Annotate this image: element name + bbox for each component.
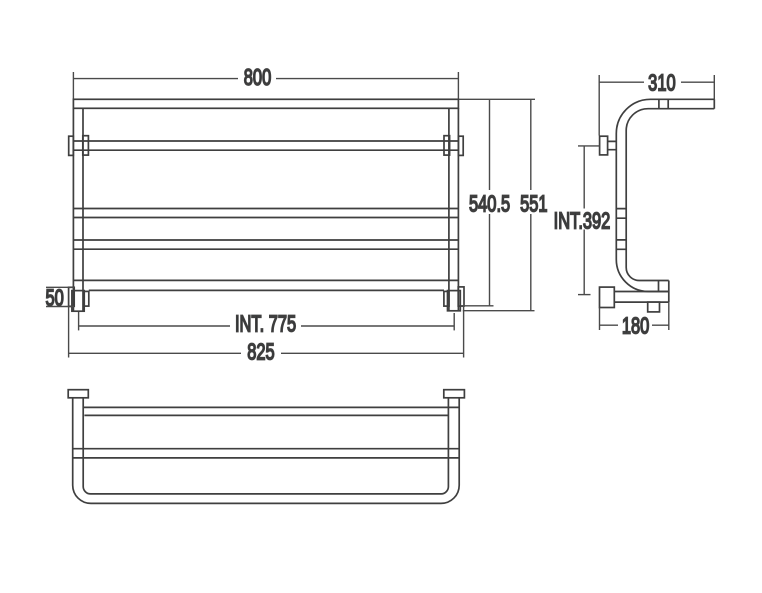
- front view: dimension 800 extension left: [72, 72, 74, 99]
- svg-text:INT.392: INT.392: [554, 209, 611, 234]
- front view: dimension INT.775 left extension: [78, 312, 80, 331]
- side view: dimension 180 right extension: [668, 302, 670, 330]
- front view: dimension 540.5 line: [489, 99, 491, 305]
- front view: upper towel rail between brackets: [73, 141, 458, 150]
- front view: dimension 50 top tick: [46, 286, 74, 288]
- side view: dimension 180 line: [600, 324, 669, 326]
- svg-text:INT. 775: INT. 775: [235, 312, 296, 337]
- plan view: U towel bar outer edge: [73, 398, 460, 504]
- svg-text:180: 180: [622, 314, 649, 339]
- plan view: left mounting cap: [68, 390, 88, 398]
- svg-text:825: 825: [247, 340, 274, 365]
- front view: dimension 825 right extension: [463, 307, 465, 358]
- svg-text:551: 551: [520, 192, 547, 217]
- front view: dimension 551 lower extension: [463, 310, 535, 312]
- front view: rail C pair: [73, 209, 458, 218]
- front view: dimension 825 line: [69, 352, 464, 354]
- front view: dimension 540.5 lower extension: [461, 305, 494, 307]
- side view: bottom wall plate: [600, 287, 615, 307]
- side view: dimension 310 line: [599, 81, 714, 83]
- front view: right vertical tube: [449, 108, 459, 311]
- front view: dimension 800 line: [73, 78, 458, 80]
- front view: bottom-right fitting block: [448, 291, 461, 311]
- side view: dimension 180 left extension: [599, 308, 601, 331]
- front view: dimension 800 extension right: [457, 72, 459, 99]
- side view: bottom small fitting under bar: [648, 302, 660, 312]
- plan view: back rail second edge: [84, 414, 448, 416]
- front view: left vertical tube: [73, 108, 83, 311]
- side view: tube cross marks (rails): [616, 209, 626, 250]
- side view: upper wall plate: [600, 136, 608, 155]
- side view: top tube with corner curve: [616, 99, 714, 133]
- plan view: front rail pair: [73, 449, 460, 458]
- side view: dimension 310 extension right: [713, 75, 715, 99]
- front view: upper-left wall plate: [69, 136, 74, 155]
- front view: bottom-right small fitting: [444, 291, 449, 306]
- front view: top shelf rail: [73, 99, 458, 108]
- front view: dimension 50 bottom tick: [46, 306, 74, 308]
- front view: upper-right wall plate: [458, 136, 463, 155]
- front view: rail D pair: [73, 240, 458, 249]
- svg-text:800: 800: [244, 65, 271, 90]
- front view: bottom-left small fitting: [84, 291, 89, 306]
- front view: upper-left bracket fitting: [83, 136, 89, 155]
- front view: bottom rail top edge: [73, 279, 458, 281]
- front view: bottom-right wall plate: [458, 287, 464, 306]
- side view: bottom curve and pipe: [616, 260, 669, 292]
- front view: dimension 551 line: [530, 99, 532, 310]
- plan view: U towel bar inner edge: [83, 398, 448, 494]
- svg-text:50: 50: [45, 286, 63, 311]
- side view: vertical tube: [616, 131, 626, 268]
- front view: upper-right bracket fitting: [444, 136, 450, 155]
- svg-text:310: 310: [648, 71, 675, 96]
- front view: bottom-left wall plate: [69, 287, 75, 306]
- front view: dimension 825 left extension: [68, 307, 70, 358]
- front view: top rail extension line to height dims: [458, 98, 535, 100]
- side view: dimension INT.392 top tick: [578, 145, 600, 147]
- side view: bottom mounting bar: [614, 292, 669, 303]
- side view: dimension INT.392 bottom tick: [578, 294, 591, 296]
- svg-text:540.5: 540.5: [469, 192, 510, 217]
- side view: dimension 310 extension left: [598, 75, 600, 136]
- side view: top tube joint marks: [659, 99, 668, 108]
- front view: dimension INT.775 right extension: [453, 313, 455, 330]
- front view: dimension INT.775 line: [79, 325, 455, 327]
- front view: bottom rail bottom edge: [89, 289, 444, 291]
- front view: bottom-left fitting block: [72, 291, 84, 312]
- side view: bottom pipe end fitting: [658, 281, 660, 292]
- plan view: right mounting cap: [444, 390, 465, 398]
- plan view: back rail top edge: [83, 406, 459, 408]
- side view: upper bracket arm: [608, 141, 617, 149]
- side view: dimension INT.392 line: [583, 146, 585, 295]
